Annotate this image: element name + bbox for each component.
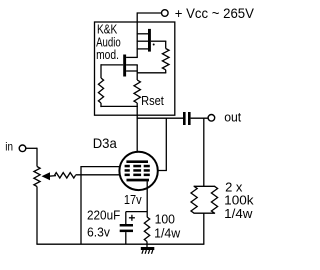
potentiometer VR1: [34, 167, 40, 187]
Q2 drain tap: [126, 56, 138, 58]
wire cap to out terminal: [191, 117, 208, 119]
resistor R4 100 ohm cathode: [144, 217, 149, 242]
wire CCS drain (vertical from Vcc into box): [136, 12, 138, 57]
svg-text:D3a: D3a: [93, 135, 117, 151]
tube V1 D3a envelope: [119, 152, 157, 190]
Q1 gate tap: [137, 40, 148, 42]
ground symbol: [141, 247, 155, 250]
svg-text:+ Vcc ~ 265V: + Vcc ~ 265V: [175, 6, 254, 21]
pot wiper arrow: [42, 172, 51, 180]
resistor Rset: [134, 80, 140, 103]
tube grid g2 row: [125, 169, 130, 172]
Q1 source tap: [137, 48, 148, 50]
resistor R3 grid stopper: [55, 173, 76, 178]
capacitor C2 220uF plates: [120, 224, 133, 227]
wire C2 bottom lead: [125, 232, 127, 244]
svg-text:6.3v: 6.3v: [87, 225, 110, 240]
wire pot bottom to ground rail: [36, 187, 38, 245]
wire source node to R1 bottom: [137, 72, 166, 74]
svg-text:220uF: 220uF: [87, 207, 120, 222]
terminal Vcc: [162, 10, 169, 17]
tube plate bar: [126, 160, 148, 163]
resistor R2 (left side of box): [100, 64, 102, 78]
wire in to pot: [26, 147, 37, 149]
svg-text:in: in: [5, 139, 13, 153]
wire screen grid strap (g2 to plate node): [165, 118, 167, 171]
wire bottom node in box: [100, 105, 137, 107]
wire g3 to ground rail: [81, 166, 125, 168]
terminal out: [208, 115, 215, 122]
wire Q2 source node (vertical): [136, 65, 138, 80]
K&K Audio mod box: [95, 22, 175, 115]
capacitor C1 coupling right plate: [188, 112, 191, 125]
wire Q1 gate to R1 top: [151, 40, 166, 42]
wire ground rail: [36, 243, 204, 245]
Q1 drain tap: [137, 33, 148, 35]
svg-text:out: out: [224, 109, 241, 124]
svg-text:1/4w: 1/4w: [154, 226, 181, 241]
capacitor C1 coupling left plate: [183, 112, 186, 125]
tube grid g3 row: [125, 165, 130, 168]
svg-text:1/4w: 1/4w: [224, 206, 253, 221]
tube grid g1 row: [125, 174, 130, 177]
wire out tap: [137, 117, 183, 119]
Q2 source tap: [126, 70, 138, 72]
C2 polarity plus: [129, 217, 135, 219]
Q1 gate dot: [153, 44, 155, 46]
resistor R1 (gate resistor, right side of box): [165, 41, 167, 48]
svg-text:mod.: mod.: [96, 47, 119, 62]
svg-text:Rset: Rset: [141, 93, 164, 108]
wire cathode node to C2: [126, 211, 147, 213]
resistor R5 2x100k output load: [203, 118, 205, 187]
Q2 gate tap: [126, 64, 138, 66]
terminal in: [19, 145, 26, 152]
transistor Q2 lower depletion MOSFET channel bar: [123, 55, 126, 77]
svg-text:100: 100: [155, 212, 175, 227]
wire Vcc feed: [137, 12, 161, 14]
wire Q2 gate to R2: [101, 64, 123, 66]
tube cathode bar: [127, 179, 150, 182]
transistor Q1 upper depletion MOSFET channel bar: [148, 29, 151, 52]
wire grid stopper to g1: [76, 174, 125, 176]
svg-text:17v: 17v: [124, 192, 142, 207]
wire CCS output / plate node (vertical through box bottom): [136, 106, 138, 161]
wire cathode lead: [146, 181, 148, 217]
